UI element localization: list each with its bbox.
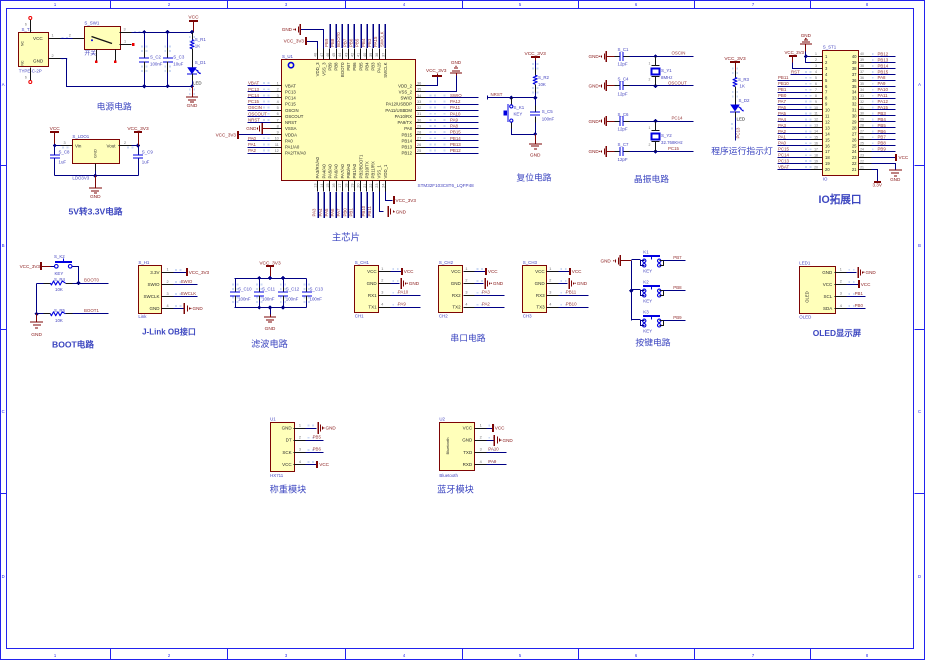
svg-text:S_C2: S_C2	[150, 55, 162, 60]
svg-text:S_C6: S_C6	[618, 112, 630, 117]
svg-text:12: 12	[275, 149, 279, 153]
svg-text:S_CH2: S_CH2	[439, 260, 454, 265]
svg-text:IO: IO	[823, 177, 828, 182]
svg-text:32: 32	[417, 106, 421, 110]
svg-text:BOOT电路: BOOT电路	[52, 339, 94, 350]
svg-text:25: 25	[417, 149, 421, 153]
svg-text:45: 45	[332, 53, 336, 57]
pin ST1.5	[811, 76, 829, 83]
svg-text:7: 7	[815, 88, 817, 92]
svg-text:17: 17	[338, 184, 342, 188]
svg-text:程序运行指示灯: 程序运行指示灯	[711, 145, 773, 156]
svg-text:11: 11	[275, 143, 279, 147]
svg-text:19: 19	[351, 184, 355, 188]
svg-text:C: C	[918, 409, 921, 414]
svg-text:VCC_3V3: VCC_3V3	[189, 270, 210, 275]
svg-text:PA10/RX: PA10/RX	[395, 114, 412, 119]
svg-text:25: 25	[860, 141, 864, 145]
pin U1.3 PC14	[271, 94, 297, 101]
resistor R1 1K	[189, 33, 207, 57]
wire+net label PA5 (ST1 left)	[778, 111, 812, 116]
capacitor C13 100nF filter	[302, 279, 323, 308]
svg-text:4: 4	[840, 304, 842, 308]
svg-text:PA8: PA8	[450, 124, 459, 129]
svg-text:S_C11: S_C11	[262, 287, 276, 292]
wire+net label PC14 (ST1 left)	[778, 153, 812, 158]
pin BT.3	[475, 448, 495, 453]
capacitor C10 100nF filter	[230, 279, 252, 308]
svg-text:PB13: PB13	[401, 145, 412, 150]
svg-text:U1: U1	[270, 416, 276, 421]
power GND to U1 pin47 VSS_3	[282, 24, 324, 49]
pin U1.14 PA4/A0	[320, 164, 327, 192]
svg-text:S_R4: S_R4	[54, 277, 66, 282]
pin H1.1	[162, 268, 182, 273]
svg-text:43: 43	[344, 53, 348, 57]
power port VCC top	[188, 15, 199, 35]
svg-text:3: 3	[123, 27, 125, 31]
svg-text:PB8: PB8	[334, 62, 339, 71]
wire+net label PC13	[248, 87, 271, 92]
svg-text:5: 5	[815, 76, 817, 80]
svg-text:GND: GND	[246, 126, 257, 131]
pin U1.36 VDD_2	[398, 82, 425, 89]
svg-text:2: 2	[166, 280, 168, 284]
svg-text:SCL: SCL	[824, 294, 833, 299]
pin H1.2	[162, 280, 182, 285]
svg-text:30: 30	[417, 118, 421, 122]
wire+net label PA11	[426, 105, 479, 110]
svg-text:1: 1	[381, 267, 383, 271]
svg-text:PA5: PA5	[778, 111, 787, 116]
wire + net label PB6 HX711.3	[306, 447, 324, 453]
svg-text:15: 15	[326, 184, 330, 188]
svg-text:29: 29	[417, 124, 421, 128]
pin OLED.3	[835, 292, 855, 297]
svg-text:PA10: PA10	[488, 447, 499, 452]
wire+net label PB11 (ST1 left)	[778, 75, 812, 80]
svg-text:23: 23	[860, 153, 864, 157]
svg-text:10K: 10K	[55, 318, 63, 323]
svg-text:20: 20	[825, 167, 830, 172]
svg-text:SWIO: SWIO	[450, 93, 462, 98]
svg-text:STM32F103C8T6_LQFP48: STM32F103C8T6_LQFP48	[418, 183, 475, 188]
svg-text:GND: GND	[282, 27, 293, 32]
pin BT.2	[475, 436, 495, 441]
net label NRST + wire	[488, 92, 538, 100]
svg-text:PA10: PA10	[878, 87, 889, 92]
svg-text:PA2/TX/A0: PA2/TX/A0	[285, 151, 307, 156]
svg-text:2: 2	[277, 88, 279, 92]
pin ST1.40	[852, 52, 872, 59]
ground GND power circuit	[186, 87, 198, 109]
pin ST1.2	[811, 58, 829, 65]
svg-text:J-Link OB接口: J-Link OB接口	[142, 327, 196, 337]
pin ST1.39	[852, 58, 872, 65]
svg-text:35: 35	[852, 84, 857, 89]
wire + net label SWCLK	[174, 291, 198, 297]
svg-text:PA8: PA8	[878, 75, 887, 80]
ground GND for C7	[589, 146, 615, 157]
svg-text:10K: 10K	[538, 82, 546, 87]
svg-text:35: 35	[860, 82, 864, 86]
svg-text:37: 37	[860, 70, 864, 74]
svg-text:27: 27	[860, 130, 864, 134]
svg-text:PB5: PB5	[355, 38, 360, 47]
svg-text:13: 13	[825, 125, 830, 130]
svg-text:PB11: PB11	[367, 206, 372, 217]
svg-text:VCC: VCC	[535, 269, 545, 274]
ground GND reset	[529, 132, 542, 159]
svg-text:串口电路: 串口电路	[450, 332, 485, 343]
wire + net label SWIO	[174, 279, 198, 285]
wire+net label NRST	[248, 117, 271, 122]
wire + net label PA2 CH2.4	[475, 302, 505, 308]
svg-text:PA10: PA10	[398, 290, 409, 295]
pin CH3.2	[547, 279, 567, 284]
svg-text:27: 27	[417, 137, 421, 141]
pin ST1.16	[811, 141, 831, 148]
svg-text:PA8: PA8	[404, 126, 412, 131]
svg-text:100nF: 100nF	[238, 297, 251, 302]
pin ST1.32	[852, 100, 872, 107]
svg-text:24: 24	[860, 147, 864, 151]
svg-text:VDD_1: VDD_1	[383, 164, 388, 178]
pin ST1.12	[811, 118, 831, 125]
svg-text:GND: GND	[530, 153, 541, 159]
wire + net label PB10 CH3.4	[559, 302, 589, 308]
svg-text:31: 31	[852, 108, 857, 113]
pin U1.46 PB9	[326, 49, 333, 71]
svg-text:PC15: PC15	[248, 99, 260, 104]
svg-text:NRST: NRST	[248, 117, 260, 122]
svg-text:VCC_3V3: VCC_3V3	[20, 264, 41, 269]
svg-text:41: 41	[357, 53, 361, 57]
power port VCC (ldo input)	[50, 126, 61, 145]
svg-text:LED1: LED1	[799, 261, 811, 266]
pin CH2.3	[464, 291, 483, 296]
svg-text:19: 19	[814, 159, 818, 163]
wire ldo bottom rail	[55, 171, 139, 178]
pin U1.40 PB4	[363, 49, 370, 71]
pin ST1.1	[811, 52, 829, 59]
pin T1 shell bottom	[25, 76, 32, 84]
svg-text:3: 3	[63, 141, 65, 145]
pin U1.48 VDD_3	[314, 49, 321, 77]
svg-text:SWIO: SWIO	[148, 282, 160, 287]
svg-text:KEY: KEY	[514, 112, 523, 117]
wire+net label PA6 (ST1 left)	[778, 105, 812, 110]
pin U1.41 PB5	[357, 49, 364, 71]
pin U1.45 PB8	[332, 49, 339, 71]
svg-text:S_H1: S_H1	[138, 260, 150, 265]
wire+net label PB12 (ST1 right)	[872, 51, 896, 56]
svg-text:GND: GND	[367, 281, 378, 286]
svg-text:S_D1: S_D1	[195, 60, 207, 65]
svg-text:PB6: PB6	[313, 447, 322, 452]
wire+net label PB9 (ST1 right)	[872, 147, 896, 152]
svg-text:PA9: PA9	[450, 117, 459, 122]
svg-text:SWCLK: SWCLK	[181, 291, 197, 296]
power port VCC ST1 pin23	[872, 154, 909, 161]
svg-text:18: 18	[814, 153, 818, 157]
svg-text:16: 16	[332, 184, 336, 188]
section title IO expansion port	[819, 193, 862, 206]
svg-text:RXD: RXD	[463, 462, 473, 467]
svg-text:PC14: PC14	[248, 93, 260, 98]
svg-text:22: 22	[369, 184, 373, 188]
svg-text:2: 2	[51, 54, 53, 58]
section title OLED display	[813, 328, 862, 338]
svg-text:SWCLK: SWCLK	[379, 31, 384, 47]
svg-text:OSCIN: OSCIN	[285, 108, 299, 113]
wire+net label PB6 (ST1 right)	[872, 129, 896, 134]
wire PC15 row	[630, 146, 694, 154]
svg-text:33: 33	[417, 100, 421, 104]
svg-text:3: 3	[381, 291, 383, 295]
svg-text:26: 26	[852, 137, 857, 142]
pin ST1.22	[852, 159, 872, 166]
wire+net label PB5	[355, 24, 361, 48]
pin ST1.7	[811, 88, 829, 95]
svg-text:1: 1	[124, 40, 126, 44]
wire VCC to LDO Vin	[53, 143, 61, 147]
svg-text:3.3V: 3.3V	[872, 182, 882, 187]
svg-text:KEY: KEY	[643, 328, 652, 333]
ground GND ldo	[89, 176, 102, 200]
svg-text:PC14: PC14	[778, 153, 790, 158]
wire+net label PB0	[342, 192, 348, 218]
section title serial circuit	[450, 332, 485, 343]
wire + net label PB1 OLED.3	[847, 291, 866, 297]
connector CH1 serial header	[355, 260, 379, 319]
ground GND boot	[30, 314, 43, 339]
svg-text:22: 22	[860, 159, 864, 163]
pin ST1.38	[852, 64, 872, 71]
wire+net label PA15	[373, 24, 379, 48]
svg-text:35: 35	[417, 88, 421, 92]
section title J-Link OB	[142, 327, 196, 337]
svg-text:RX2: RX2	[452, 293, 461, 298]
svg-text:PB11: PB11	[566, 290, 577, 295]
svg-text:VCC: VCC	[33, 36, 43, 41]
capacitor C11 100nF filter	[254, 279, 276, 308]
wire+net label PC15 (ST1 left)	[778, 147, 812, 152]
pin T1 shell top	[25, 17, 32, 27]
svg-text:GND: GND	[801, 33, 812, 38]
wire+net label PA6	[330, 192, 336, 218]
svg-text:PA7: PA7	[778, 99, 787, 104]
pin U1.5 OSCIN	[271, 106, 299, 113]
svg-text:34: 34	[852, 90, 857, 95]
svg-text:PB9: PB9	[328, 62, 333, 71]
svg-text:PA6: PA6	[778, 105, 787, 110]
wire+net label PB12	[426, 148, 479, 153]
pin ST1.34	[852, 88, 872, 95]
wire U1 VDD_2 to VCC_3V3	[426, 76, 438, 86]
svg-text:PA11/USBDM: PA11/USBDM	[385, 108, 412, 113]
svg-text:TXD: TXD	[463, 450, 473, 455]
svg-text:PA3: PA3	[778, 123, 787, 128]
svg-text:39: 39	[860, 58, 864, 62]
svg-text:33: 33	[860, 94, 864, 98]
svg-text:主芯片: 主芯片	[332, 232, 360, 243]
connector ST1 IO header body	[823, 45, 859, 182]
svg-text:S_SW1: S_SW1	[84, 20, 99, 25]
svg-text:38: 38	[375, 53, 379, 57]
svg-text:VSSA: VSSA	[285, 126, 297, 131]
svg-text:3: 3	[549, 291, 551, 295]
svg-text:PC13: PC13	[285, 89, 296, 94]
svg-text:PB1: PB1	[855, 291, 864, 296]
pin U1.4 PC15	[271, 100, 297, 107]
svg-text:11: 11	[825, 114, 830, 119]
wire OSCIN row	[630, 51, 694, 59]
wire+net label PB3 (ST1 right)	[872, 111, 896, 116]
svg-text:7: 7	[277, 118, 279, 122]
svg-text:1K: 1K	[195, 44, 200, 49]
pin BT.1	[475, 423, 495, 428]
svg-text:PC15: PC15	[285, 102, 296, 107]
ground GND OLED.1	[847, 267, 877, 278]
svg-text:S_C7: S_C7	[618, 142, 630, 147]
section title main chip	[332, 232, 360, 243]
svg-text:PA1: PA1	[248, 142, 257, 147]
svg-text:C: C	[2, 409, 5, 414]
svg-text:GND: GND	[326, 426, 337, 431]
power port VCC CH1.1	[391, 268, 415, 275]
svg-text:GND: GND	[589, 119, 600, 124]
pin U1.16 PA6/A0	[332, 164, 339, 192]
svg-text:PB8: PB8	[673, 285, 682, 290]
capacitor C2 100nF	[139, 33, 163, 87]
svg-text:VCC: VCC	[404, 269, 414, 274]
wire+net label PB3	[367, 24, 373, 48]
pin LDO1.3 Vin stub	[61, 141, 73, 149]
svg-text:S_U1: S_U1	[282, 54, 294, 59]
svg-text:100nF: 100nF	[542, 117, 555, 122]
svg-text:5: 5	[277, 106, 279, 110]
svg-text:GND: GND	[503, 438, 514, 443]
svg-text:VCC_3V3: VCC_3V3	[525, 51, 547, 57]
svg-text:12pF: 12pF	[618, 126, 628, 131]
key K3 KEY tact switch	[632, 309, 664, 333]
svg-text:VCC_3V3: VCC_3V3	[426, 68, 447, 73]
svg-text:6: 6	[25, 76, 27, 80]
power port VCC_3V3 at U1 top right	[426, 68, 447, 76]
svg-text:PA1/A0: PA1/A0	[285, 145, 300, 150]
pin ST1.31	[852, 106, 872, 113]
power port VCC OLED.2	[847, 280, 872, 288]
svg-text:S_C13: S_C13	[310, 287, 324, 292]
capacitor C5 100nF reset	[530, 98, 554, 135]
wire+net label PB0 (ST1 left)	[778, 93, 812, 98]
svg-text:PA5/A0: PA5/A0	[328, 164, 333, 179]
regulator LDO1 LDO3V3	[72, 134, 119, 181]
svg-text:S_D2: S_D2	[739, 98, 751, 103]
pin HX711.4	[294, 460, 314, 465]
ground GND CH2.2	[475, 278, 504, 289]
svg-text:GND: GND	[866, 270, 877, 275]
connector T1 TYPE-C-2P	[19, 20, 49, 81]
svg-text:5V转3.3V电路: 5V转3.3V电路	[69, 206, 123, 217]
svg-text:PB5: PB5	[358, 62, 363, 71]
svg-text:4: 4	[549, 303, 551, 307]
pin U1.23 VSS_1	[375, 165, 382, 192]
wire+net label PC14	[248, 93, 271, 98]
pin CH1.1	[379, 267, 399, 272]
svg-text:25: 25	[852, 143, 857, 148]
svg-text:A: A	[918, 82, 921, 87]
ground GND at U1 top right	[450, 60, 462, 75]
svg-text:NC: NC	[21, 60, 25, 65]
wire+net label RST (ST1 left)	[791, 69, 812, 74]
pin U1.10 PA0	[271, 137, 294, 144]
wire + net label PB9	[664, 315, 686, 320]
resistor R3 1K	[732, 68, 750, 100]
wire U1 VSS_1 to GND	[380, 192, 384, 212]
pin U1.19 PB1/A0	[351, 163, 358, 191]
svg-text:3: 3	[299, 448, 301, 452]
wire+net label PB15 (ST1 right)	[872, 69, 896, 74]
svg-text:VCC: VCC	[488, 269, 498, 274]
pin OLED.2	[835, 280, 855, 285]
svg-text:VCC: VCC	[861, 282, 871, 287]
svg-text:2: 2	[124, 141, 126, 145]
svg-text:OLED: OLED	[805, 291, 810, 302]
pin ST1.30	[852, 112, 872, 119]
svg-text:30: 30	[852, 114, 857, 119]
svg-text:39: 39	[369, 53, 373, 57]
power port VCC HX711.4	[306, 461, 330, 468]
pin HX711.1	[294, 423, 314, 428]
svg-text:B: B	[918, 243, 921, 248]
svg-text:CH2: CH2	[439, 314, 448, 319]
svg-text:OLED显示屏: OLED显示屏	[813, 328, 862, 338]
pin SW1.1 stub (unconnected)	[120, 40, 135, 46]
capacitor C9 1uF	[133, 146, 153, 176]
pin CH3.4	[547, 303, 567, 308]
wire+net label PB14 (ST1 right)	[872, 63, 896, 68]
svg-text:2: 2	[480, 436, 482, 440]
svg-text:PB3: PB3	[367, 38, 372, 47]
svg-text:KEY: KEY	[55, 271, 64, 276]
svg-text:PB10/TX: PB10/TX	[364, 161, 369, 178]
svg-text:17: 17	[825, 149, 830, 154]
wire + net label PB7	[664, 255, 686, 260]
wire+net label PA1	[248, 142, 271, 148]
pin T1.2 GND stub	[49, 54, 68, 60]
svg-text:GND: GND	[462, 438, 473, 443]
svg-text:S_CH3: S_CH3	[523, 260, 538, 265]
svg-text:按键电路: 按键电路	[635, 337, 670, 348]
wire+net label PA11 (ST1 right)	[872, 93, 896, 98]
svg-text:PA9: PA9	[878, 81, 887, 86]
wire+net label VBAT (ST1 left)	[778, 164, 812, 169]
svg-text:14: 14	[814, 130, 818, 134]
svg-text:K2: K2	[643, 279, 649, 284]
svg-text:23: 23	[852, 155, 857, 160]
wire+net label PB10	[361, 192, 367, 218]
svg-text:SDA: SDA	[823, 306, 832, 311]
svg-text:14: 14	[320, 184, 324, 188]
pin OLED.1	[835, 268, 855, 273]
pin ST1.13	[811, 124, 831, 131]
svg-text:32.768KHz: 32.768KHz	[661, 140, 683, 145]
svg-text:电源电路: 电源电路	[97, 101, 132, 112]
svg-text:6: 6	[815, 82, 817, 86]
section title key circuit	[635, 337, 670, 348]
